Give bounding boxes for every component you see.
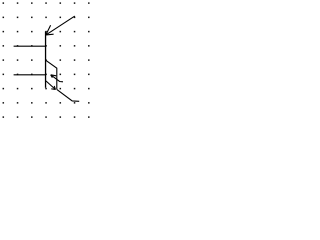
wire base Q2 (14, 74, 46, 76)
wire to bottom right (57, 89, 79, 101)
wire base Q1 (14, 45, 46, 47)
transistor Q2 arrow head (51, 75, 57, 78)
transistor Q2 emitter arrow (51, 86, 55, 90)
transistor Q2 emitter lead (46, 81, 56, 90)
transistor Q1/Q2 base bar (45, 31, 47, 87)
transistor Q1 emitter arrow (46, 25, 54, 35)
transistor Q1 collector lead (46, 60, 57, 89)
transistor Q2 lead with arrow (51, 75, 63, 82)
transistor Q1 emitter lead (46, 16, 75, 35)
